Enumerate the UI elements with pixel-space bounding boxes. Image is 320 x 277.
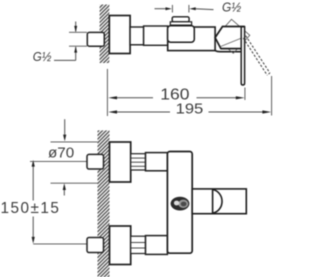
thin diamond (lever swing envelope): [215, 19, 250, 53]
upper wall flange dia70: [110, 142, 131, 182]
150 dim upper extension line (inlet axis): [30, 160, 87, 162]
mixer body (top view): [168, 27, 215, 51]
arrow up (G1/2 left dim): [75, 47, 77, 60]
lower union nut (front view): [146, 236, 168, 255]
wall (hatched) bottom view: [98, 130, 110, 277]
mixer body (front view): [167, 152, 192, 254]
wall (hatched) top view: [100, 5, 110, 64]
wall face extension line (160/195 datum): [106, 69, 108, 116]
dim 160 line: [114, 97, 154, 99]
cap dim right tick: [188, 5, 190, 13]
leader line to G1/2 text: [54, 59, 76, 61]
dia70 upper extension line: [51, 141, 98, 143]
dashed lever tip extension line (195): [271, 76, 273, 116]
cap base lip: [170, 22, 191, 25]
svg-text:G½: G½: [222, 1, 242, 15]
connecting pipe: [130, 27, 144, 45]
union nut (top view): [144, 26, 168, 45]
dim 195 line: [114, 111, 171, 113]
svg-text:G½: G½: [33, 50, 52, 64]
arrow down (G1/2 left dim): [75, 22, 77, 32]
lower wall flange dia70: [110, 226, 131, 265]
valve head (bold pentagon): [215, 27, 244, 49]
dim 150+-15 vertical line upper part: [32, 166, 34, 201]
lever handle (front view, pointing at viewer): [192, 189, 246, 214]
cartridge housing bump: [168, 26, 195, 43]
wire: G1/2 lower extension line: [69, 45, 87, 47]
dia70 lower arrow: [63, 190, 65, 196]
svg-text:150±15: 150±15: [1, 200, 61, 217]
inlet nipple (left, top view): [87, 32, 104, 46]
dia70 lower extension line: [51, 182, 99, 184]
lever tip extension tick (160): [244, 88, 246, 101]
upper threaded connector: [131, 154, 146, 170]
wall flange (escutcheon, top view): [109, 16, 130, 54]
lower threaded connector: [131, 236, 146, 253]
upper inlet nipple (front view): [87, 154, 104, 169]
lower inlet nipple (front view): [87, 238, 104, 253]
dia70 upper arrow: [64, 119, 66, 135]
lever knob D-profile: [212, 189, 214, 213]
svg-text:ø70: ø70: [48, 145, 74, 162]
wire: G1/2 upper extension line: [69, 31, 87, 33]
dim 150+-15 vertical line lower part: [32, 217, 34, 238]
cap dim left arrow: [155, 8, 167, 10]
lever handle dashed (open position): [246, 36, 270, 73]
150 dim lower extension line (inlet axis): [33, 243, 87, 245]
svg-text:195: 195: [176, 100, 204, 117]
cap dim left tick: [171, 5, 173, 13]
lever shaft line inside head: [220, 37, 243, 46]
lever handle (closed position): [241, 27, 244, 85]
cap dim right arrow: [195, 8, 214, 11]
shower outlet cap G1/2: [172, 17, 189, 22]
logo ellipse on body: [171, 197, 190, 211]
body bottom fillet: [215, 51, 244, 52]
upper union nut (front view): [146, 153, 168, 171]
